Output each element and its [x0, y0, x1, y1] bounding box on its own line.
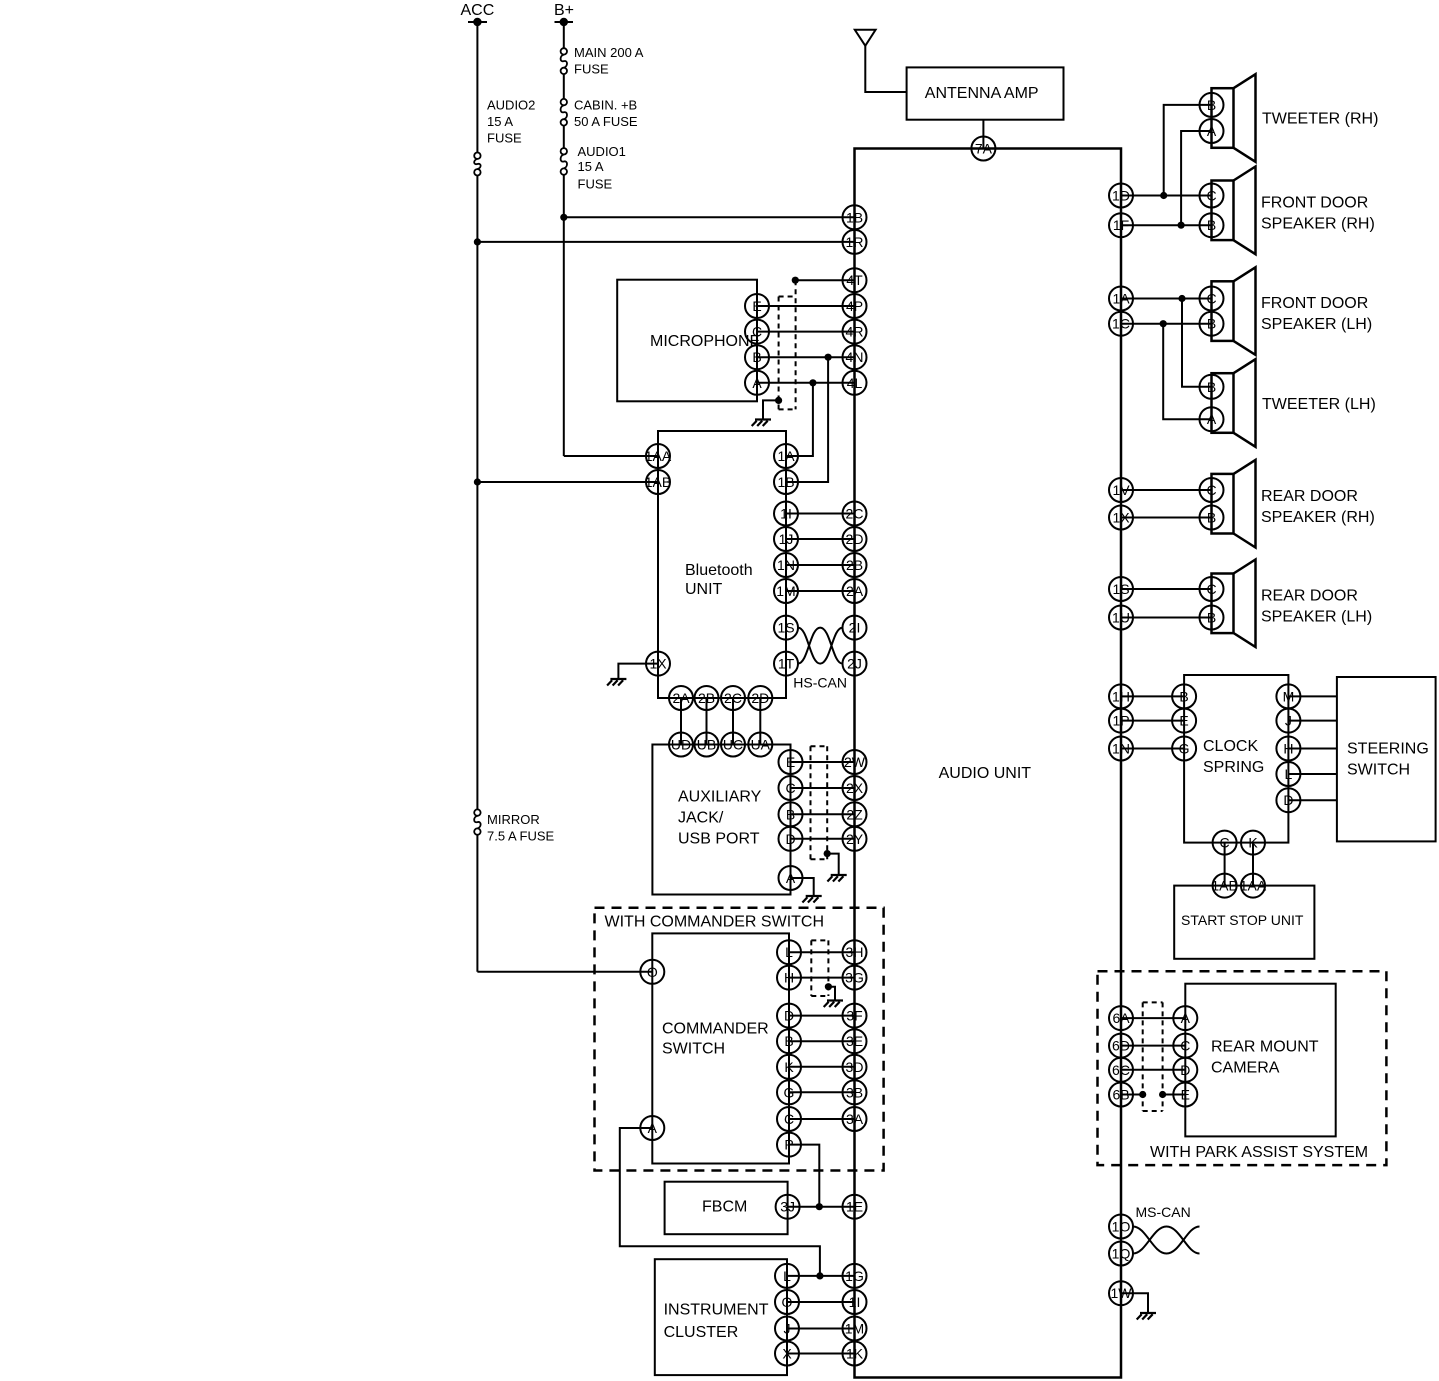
svg-text:SPEAKER (LH): SPEAKER (LH) [1261, 316, 1372, 333]
pin UC [721, 733, 745, 757]
svg-text:D: D [784, 1008, 794, 1024]
pin 1AA [645, 444, 672, 468]
wire 2B to UB [706, 698, 708, 745]
svg-text:REAR DOOR: REAR DOOR [1261, 587, 1358, 604]
shield microphone cable [779, 280, 796, 409]
svg-text:4N: 4N [846, 349, 864, 365]
pin 1E [843, 1195, 867, 1219]
svg-text:C: C [1206, 581, 1216, 597]
node ACC terminal [461, 2, 495, 26]
pin 4N [843, 345, 867, 369]
label TWEETER (LH) [1262, 396, 1376, 413]
pin cam D [1173, 1058, 1197, 1082]
box COMMANDER SWITCH [652, 933, 789, 1163]
pin commander H [777, 966, 801, 990]
svg-text:FBCM: FBCM [702, 1199, 747, 1216]
pin 1I [774, 502, 798, 526]
wire commander G to 3B [789, 1091, 855, 1093]
label MAIN fuse [574, 45, 644, 77]
pin mic B [745, 345, 769, 369]
pin commander L [777, 940, 801, 964]
svg-text:1A: 1A [1112, 291, 1130, 307]
label AUDIO2 fuse [487, 97, 535, 145]
box MICROPHONE [617, 280, 760, 402]
wire 1F to FD RH B / tweeter RH A [1121, 131, 1212, 229]
label TWEETER (RH) [1262, 110, 1378, 127]
svg-text:2D: 2D [751, 690, 769, 706]
pin 1C [1109, 312, 1133, 336]
svg-text:1AA: 1AA [645, 448, 672, 464]
svg-text:1T: 1T [778, 656, 795, 672]
pin BT 1S [774, 616, 798, 640]
pin aux A [779, 866, 803, 890]
pin 2D [843, 527, 867, 551]
svg-text:C: C [785, 780, 795, 796]
pin au 1X [1109, 506, 1133, 530]
svg-text:1F: 1F [1113, 217, 1129, 233]
pin cluster L [775, 1264, 799, 1288]
wire 1W to ground [1121, 1293, 1148, 1313]
wire commander P to 1E net [789, 1145, 823, 1211]
svg-text:CAMERA: CAMERA [1211, 1060, 1280, 1077]
svg-text:B: B [1207, 610, 1216, 626]
svg-text:ACC: ACC [461, 2, 495, 19]
svg-text:C: C [752, 324, 762, 340]
pin 1N [774, 553, 798, 577]
svg-text:1A: 1A [777, 448, 795, 464]
svg-text:UC: UC [723, 737, 743, 753]
svg-text:B: B [1207, 379, 1216, 395]
pin 1F [1109, 213, 1133, 237]
svg-text:H: H [1283, 741, 1293, 757]
svg-text:E: E [1181, 1087, 1190, 1103]
wire 1P to clock spring E [1121, 720, 1184, 722]
pin commander O [640, 960, 664, 984]
wire 1H to clock spring B [1121, 695, 1184, 697]
pin 3J [776, 1195, 800, 1219]
svg-text:1I: 1I [849, 1294, 861, 1310]
wire clock M to steering switch [1288, 695, 1337, 697]
fuse MIRROR 7.5 A [474, 809, 480, 834]
svg-text:6A: 6A [1112, 1010, 1130, 1026]
svg-text:Bluetooth: Bluetooth [685, 562, 753, 579]
box ANTENNA AMP U2 [907, 67, 1064, 119]
svg-text:1P: 1P [1112, 713, 1129, 729]
pin 2W [843, 750, 867, 774]
svg-text:AUDIO UNIT: AUDIO UNIT [939, 765, 1032, 782]
svg-text:FUSE: FUSE [574, 62, 609, 77]
pin commander P [777, 1133, 801, 1157]
wire ACC to Bluetooth 1AB [474, 478, 658, 485]
pin 1T [774, 652, 798, 676]
pin 3D [843, 1055, 867, 1079]
svg-text:REAR MOUNT: REAR MOUNT [1211, 1039, 1319, 1056]
svg-text:B+: B+ [554, 2, 574, 19]
wire 1M to 2A [786, 590, 855, 592]
svg-text:FRONT DOOR: FRONT DOOR [1261, 194, 1368, 211]
svg-text:A: A [1207, 411, 1217, 427]
svg-text:1M: 1M [845, 1321, 864, 1337]
svg-text:1Q: 1Q [1112, 1246, 1131, 1262]
wire 1U to RD LH B [1121, 617, 1212, 619]
pin 1W [1109, 1281, 1133, 1305]
svg-text:1K: 1K [846, 1346, 864, 1362]
box INSTRUMENT CLUSTER [655, 1259, 787, 1375]
pin rd LH B [1200, 606, 1224, 630]
svg-text:P: P [784, 1137, 793, 1153]
svg-text:A: A [752, 375, 762, 391]
pin 1X [646, 652, 670, 676]
wire mic shield drain [763, 397, 782, 420]
svg-text:TWEETER (RH): TWEETER (RH) [1262, 110, 1378, 127]
svg-text:REAR DOOR: REAR DOOR [1261, 488, 1358, 505]
speaker FRONT DOOR SPEAKER LH [1212, 267, 1256, 355]
pin cs D [1276, 788, 1300, 812]
svg-text:3G: 3G [845, 970, 864, 986]
wire ACC vertical rail [476, 22, 478, 972]
svg-text:2C: 2C [846, 506, 864, 522]
wire cluster X to 1K [787, 1353, 855, 1355]
fuse CABIN +B 50 A [561, 99, 567, 126]
svg-text:AUDIO2: AUDIO2 [487, 97, 535, 112]
wire B+ to Bluetooth 1AA [564, 455, 658, 457]
svg-text:FUSE: FUSE [578, 176, 613, 191]
pin BT 1A [774, 444, 798, 468]
pin commander D [777, 1004, 801, 1028]
pin 2X [843, 776, 867, 800]
pin 1J [774, 527, 798, 551]
pin 1H [1109, 684, 1133, 708]
svg-text:WITH COMMANDER SWITCH: WITH COMMANDER SWITCH [605, 914, 825, 931]
pin cs E [1172, 709, 1196, 733]
pin cs G [1172, 737, 1196, 761]
pin 1M [774, 579, 798, 603]
pin cluster O [775, 1290, 799, 1314]
pin 6D [1109, 1034, 1133, 1058]
wire clock K to 1AA [1252, 843, 1254, 886]
pin 6C [1109, 1058, 1133, 1082]
wire cluster J to 1M [787, 1328, 855, 1330]
pin 3H [843, 940, 867, 964]
wire commander D to 3F [789, 1015, 855, 1017]
svg-text:3J: 3J [780, 1199, 795, 1215]
svg-text:J: J [1285, 713, 1292, 729]
svg-text:1AB: 1AB [1211, 878, 1237, 894]
svg-text:C: C [1206, 482, 1216, 498]
svg-text:4R: 4R [846, 324, 864, 340]
svg-text:1AB: 1AB [645, 474, 671, 490]
svg-text:15 A: 15 A [487, 114, 513, 129]
label AUDIO1 fuse [578, 144, 626, 192]
wire 6D to camera C [1121, 1045, 1185, 1047]
svg-text:B: B [784, 1033, 793, 1049]
svg-text:4T: 4T [846, 272, 863, 288]
svg-text:UA: UA [751, 737, 771, 753]
pin 7A [971, 137, 995, 161]
pin commander B [777, 1029, 801, 1053]
svg-text:G: G [1179, 741, 1190, 757]
wire commander K to 3D [789, 1066, 855, 1068]
svg-text:3D: 3D [846, 1059, 864, 1075]
pin fd LH B [1200, 312, 1224, 336]
wire clock H to steering switch [1288, 748, 1337, 750]
svg-text:1V: 1V [1112, 482, 1130, 498]
svg-text:1N: 1N [1112, 741, 1130, 757]
svg-text:CLUSTER: CLUSTER [664, 1324, 739, 1341]
box FBCM [665, 1182, 788, 1235]
wire cluster L to 1G [787, 1275, 855, 1277]
wire Bluetooth 1X to ground [618, 664, 658, 679]
pin UA [748, 733, 772, 757]
wire B+ vertical rail [563, 22, 565, 456]
pin 2J [843, 652, 867, 676]
svg-text:1M: 1M [776, 583, 795, 599]
svg-text:1AA: 1AA [1240, 878, 1267, 894]
wire 1X to RD RH B [1121, 517, 1212, 519]
wire mic C to 4R [757, 331, 855, 333]
svg-text:G: G [784, 1084, 795, 1100]
pin 6B [1109, 1083, 1133, 1107]
pin 2Y [843, 827, 867, 851]
svg-text:MIRROR: MIRROR [487, 812, 540, 827]
pin 1K [843, 1342, 867, 1366]
pin commander G [777, 1080, 801, 1104]
svg-text:FUSE: FUSE [487, 131, 522, 146]
pin 2A [843, 579, 867, 603]
svg-text:2J: 2J [847, 656, 862, 672]
wire aux A to ground [791, 878, 814, 896]
pin 4T [843, 268, 867, 292]
shield aux cable [811, 746, 828, 859]
wire 3J to 1E [788, 1206, 855, 1208]
pin 1U [1109, 606, 1133, 630]
wire commander B to 3E [789, 1040, 855, 1042]
pin commander A [640, 1116, 664, 1140]
wire ACC to pin 1R [474, 238, 855, 245]
svg-text:2A: 2A [672, 690, 690, 706]
label REAR DOOR SPEAKER (LH) [1261, 587, 1372, 625]
wire Bluetooth 1A to mic A net [786, 383, 813, 456]
label FRONT DOOR SPEAKER (RH) [1261, 194, 1375, 232]
svg-text:SPEAKER (RH): SPEAKER (RH) [1261, 509, 1375, 526]
pin fd RH C [1200, 184, 1224, 208]
pin 1Q [1109, 1242, 1133, 1266]
svg-text:B: B [1207, 510, 1216, 526]
wire mic B to 4N [757, 354, 855, 361]
pin BT 1B [774, 470, 798, 494]
svg-text:1H: 1H [1112, 688, 1130, 704]
ground 1W [1137, 1313, 1156, 1320]
pin 3E [843, 1029, 867, 1053]
svg-text:MICROPHONE: MICROPHONE [650, 333, 760, 350]
box Bluetooth UNIT [658, 431, 786, 698]
svg-text:2D: 2D [846, 531, 864, 547]
wire commander A to 1G net [620, 1128, 824, 1280]
pin cluster J [775, 1317, 799, 1341]
svg-text:3E: 3E [846, 1033, 863, 1049]
pin aux C [779, 776, 803, 800]
pin cam E [1173, 1083, 1197, 1107]
svg-text:START STOP UNIT: START STOP UNIT [1181, 912, 1304, 928]
box CLOCK SPRING [1184, 675, 1288, 843]
svg-text:1I: 1I [780, 506, 792, 522]
twisted pair MS-CAN [1133, 1204, 1200, 1254]
svg-text:6B: 6B [1112, 1087, 1129, 1103]
pin au 1S [1109, 577, 1133, 601]
wire 6B to camera shield [1121, 1091, 1146, 1098]
svg-text:L: L [785, 944, 793, 960]
svg-text:1O: 1O [1112, 1219, 1131, 1235]
pin au 1A [1109, 287, 1133, 311]
svg-text:3H: 3H [846, 944, 864, 960]
pin cam A [1173, 1006, 1197, 1030]
svg-text:1X: 1X [1112, 510, 1130, 526]
box AUXILIARY JACK / USB PORT [652, 745, 790, 895]
svg-text:1C: 1C [1112, 316, 1130, 332]
wire 6C to camera D [1121, 1069, 1185, 1071]
wire aux E to 2W [791, 761, 855, 763]
svg-text:X: X [782, 1346, 792, 1362]
ground commander shield [824, 1001, 843, 1008]
label CABIN fuse [574, 97, 638, 129]
wire clock D to steering switch [1288, 799, 1337, 801]
svg-text:STEERING: STEERING [1347, 741, 1429, 758]
pin commander K [777, 1055, 801, 1079]
pin tw RH B [1200, 93, 1224, 117]
pin 1AB [645, 470, 671, 494]
svg-text:E: E [786, 754, 795, 770]
svg-text:COMMANDER: COMMANDER [662, 1021, 769, 1038]
wire camera shield to camera E [1159, 1091, 1185, 1098]
wire 1N to clock spring G [1121, 748, 1184, 750]
pin 1I [843, 1290, 867, 1314]
svg-text:JACK/: JACK/ [678, 810, 724, 827]
box AUDIO UNIT U1 [855, 149, 1122, 1378]
svg-text:UB: UB [697, 737, 716, 753]
pin cs B [1172, 684, 1196, 708]
pin 1V [1109, 478, 1133, 502]
svg-text:E: E [1179, 713, 1188, 729]
svg-text:MS-CAN: MS-CAN [1136, 1204, 1191, 1220]
pin 3B [843, 1080, 867, 1104]
pin 2C [843, 502, 867, 526]
svg-text:2X: 2X [846, 780, 864, 796]
svg-text:1W: 1W [1111, 1285, 1133, 1301]
wire mic E to 4P [757, 305, 855, 307]
pin cs L [1276, 762, 1300, 786]
pin aux E [779, 750, 803, 774]
svg-text:4L: 4L [847, 375, 863, 391]
pin fd LH C [1200, 287, 1224, 311]
svg-text:D: D [1283, 792, 1293, 808]
svg-text:D: D [785, 831, 795, 847]
pin 6A [1109, 1006, 1133, 1030]
svg-text:C: C [1206, 291, 1216, 307]
svg-text:1U: 1U [1112, 610, 1130, 626]
antenna [855, 30, 907, 92]
svg-text:1J: 1J [779, 531, 794, 547]
svg-text:USB PORT: USB PORT [678, 831, 760, 848]
svg-text:A: A [1181, 1010, 1191, 1026]
ground mic shield [752, 420, 771, 427]
pin 2B [843, 553, 867, 577]
pin rd RH C [1200, 478, 1224, 502]
svg-text:MAIN 200 A: MAIN 200 A [574, 45, 644, 60]
svg-text:6C: 6C [1112, 1062, 1130, 1078]
speaker FRONT DOOR SPEAKER RH [1212, 167, 1256, 255]
pin mic E [745, 294, 769, 318]
pin 1B [843, 205, 867, 229]
svg-text:4P: 4P [846, 298, 863, 314]
pin cs M [1276, 684, 1300, 708]
svg-text:15 A: 15 A [578, 159, 604, 174]
pin BT 2C [721, 686, 745, 710]
pin tw LH B [1200, 375, 1224, 399]
svg-text:A: A [648, 1120, 658, 1136]
svg-text:O: O [782, 1294, 793, 1310]
svg-text:1G: 1G [845, 1268, 864, 1284]
svg-text:SPRING: SPRING [1203, 759, 1264, 776]
pin tw LH A [1200, 407, 1224, 431]
shield camera cable [1143, 1002, 1163, 1111]
pin commander C [777, 1107, 801, 1131]
pin 1R [843, 230, 867, 254]
svg-text:ANTENNA AMP: ANTENNA AMP [925, 85, 1039, 102]
svg-text:B: B [786, 806, 795, 822]
svg-text:7A: 7A [975, 141, 993, 157]
wire 2A to UD [680, 698, 682, 745]
wire 2D to UA [759, 698, 761, 745]
wire aux D to 2Y [791, 838, 855, 840]
wire shield to 4T [792, 277, 855, 284]
pin 1D [1109, 184, 1133, 208]
pin 1O [1109, 1215, 1133, 1239]
pin BT 2A [669, 686, 693, 710]
svg-text:1R: 1R [846, 234, 864, 250]
pin 1P [1109, 709, 1133, 733]
svg-text:3A: 3A [846, 1111, 864, 1127]
wire 1I to 2C [786, 513, 855, 515]
pin 1G [843, 1264, 867, 1288]
svg-text:C: C [1180, 1038, 1190, 1054]
ground aux A [802, 896, 821, 903]
dashed box WITH COMMANDER SWITCH [595, 908, 884, 1171]
svg-text:M: M [1283, 688, 1295, 704]
svg-text:AUXILIARY: AUXILIARY [678, 789, 762, 806]
svg-text:SPEAKER (RH): SPEAKER (RH) [1261, 215, 1375, 232]
wire 1S to RD LH C [1121, 588, 1212, 590]
svg-text:3F: 3F [846, 1008, 862, 1024]
svg-text:A: A [786, 870, 796, 886]
pin mic C [745, 320, 769, 344]
wire clock C to 1AB [1224, 843, 1226, 886]
svg-text:SWITCH: SWITCH [1347, 762, 1410, 779]
pin fd RH B [1200, 213, 1224, 237]
label MIRROR fuse [487, 812, 555, 844]
svg-text:C: C [1220, 835, 1230, 851]
svg-text:7.5 A FUSE: 7.5 A FUSE [487, 829, 555, 844]
svg-text:WITH PARK ASSIST SYSTEM: WITH PARK ASSIST SYSTEM [1150, 1144, 1368, 1161]
svg-text:2C: 2C [724, 690, 742, 706]
svg-text:3B: 3B [846, 1084, 863, 1100]
svg-text:1S: 1S [777, 620, 794, 636]
wire clock J to steering switch [1288, 720, 1337, 722]
wire 1A to FD LH C / tweeter LH B [1121, 295, 1212, 387]
svg-text:L: L [1285, 766, 1293, 782]
fuse AUDIO1 15 A [561, 148, 567, 175]
pin 1M [843, 1317, 867, 1341]
wire aux C to 2X [791, 787, 855, 789]
